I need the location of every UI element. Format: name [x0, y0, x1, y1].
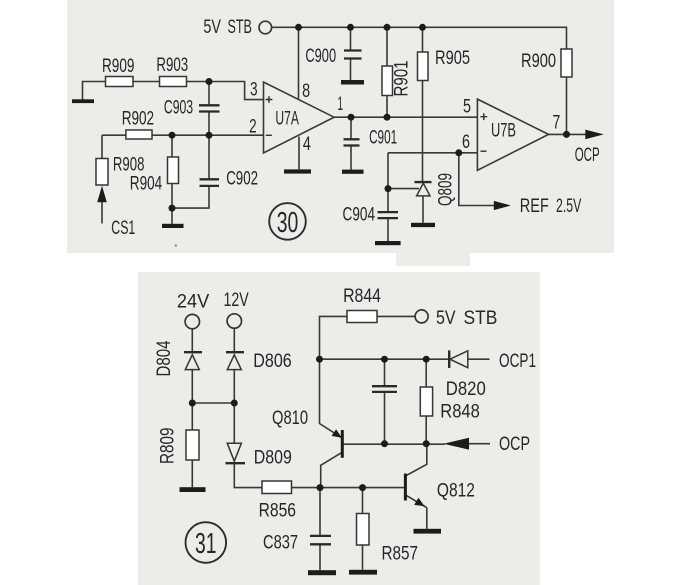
svg-text:CS1: CS1 [111, 218, 135, 239]
svg-text:R904: R904 [130, 174, 163, 195]
svg-text:OCP: OCP [499, 434, 530, 455]
svg-text:D809: D809 [254, 448, 292, 469]
svg-text:R857: R857 [382, 544, 419, 565]
svg-text:Q810: Q810 [272, 408, 308, 429]
svg-text:1: 1 [338, 94, 344, 115]
svg-text:30: 30 [277, 207, 299, 239]
svg-text:6: 6 [462, 132, 470, 153]
svg-text:R902: R902 [122, 109, 154, 130]
svg-text:OCP1: OCP1 [499, 351, 536, 372]
svg-text:R903: R903 [156, 55, 188, 76]
svg-text:2: 2 [249, 116, 257, 137]
svg-text:D804: D804 [154, 340, 175, 376]
svg-text:R901: R901 [392, 61, 413, 97]
svg-text:8: 8 [302, 81, 310, 102]
svg-text:5: 5 [463, 97, 471, 118]
svg-text:4: 4 [303, 134, 311, 155]
svg-text:STB: STB [228, 17, 252, 38]
svg-text:D820: D820 [446, 379, 486, 400]
svg-text:3: 3 [250, 80, 258, 101]
svg-text:R908: R908 [113, 155, 144, 176]
svg-text:31: 31 [195, 528, 217, 560]
svg-text:2.5V: 2.5V [556, 196, 582, 217]
svg-text:C904: C904 [343, 205, 376, 226]
svg-text:OCP: OCP [575, 145, 600, 166]
svg-text:R900: R900 [521, 51, 556, 72]
svg-text:R844: R844 [343, 286, 381, 307]
svg-text:U7A: U7A [275, 108, 299, 129]
svg-text:C903: C903 [164, 97, 193, 118]
svg-text:Q812: Q812 [437, 481, 475, 502]
svg-text:R809: R809 [158, 428, 179, 465]
svg-text:R909: R909 [102, 56, 134, 77]
svg-text:U7B: U7B [491, 120, 516, 141]
svg-text:C837: C837 [263, 533, 298, 554]
svg-text:STB: STB [464, 308, 498, 329]
svg-text:D806: D806 [253, 351, 291, 372]
svg-text:12V: 12V [224, 290, 249, 311]
svg-text:5V: 5V [203, 17, 221, 38]
svg-text:5V: 5V [436, 308, 456, 329]
svg-text:C901: C901 [369, 128, 397, 149]
svg-text:Q809: Q809 [436, 173, 457, 206]
svg-text:R905: R905 [435, 48, 470, 69]
svg-text:R856: R856 [259, 501, 296, 522]
svg-text:REF: REF [520, 196, 549, 217]
svg-text:7: 7 [553, 112, 561, 133]
svg-text:C900: C900 [305, 46, 336, 67]
svg-text:24V: 24V [177, 292, 210, 313]
svg-text:R848: R848 [440, 402, 480, 423]
svg-text:C902: C902 [226, 169, 258, 190]
